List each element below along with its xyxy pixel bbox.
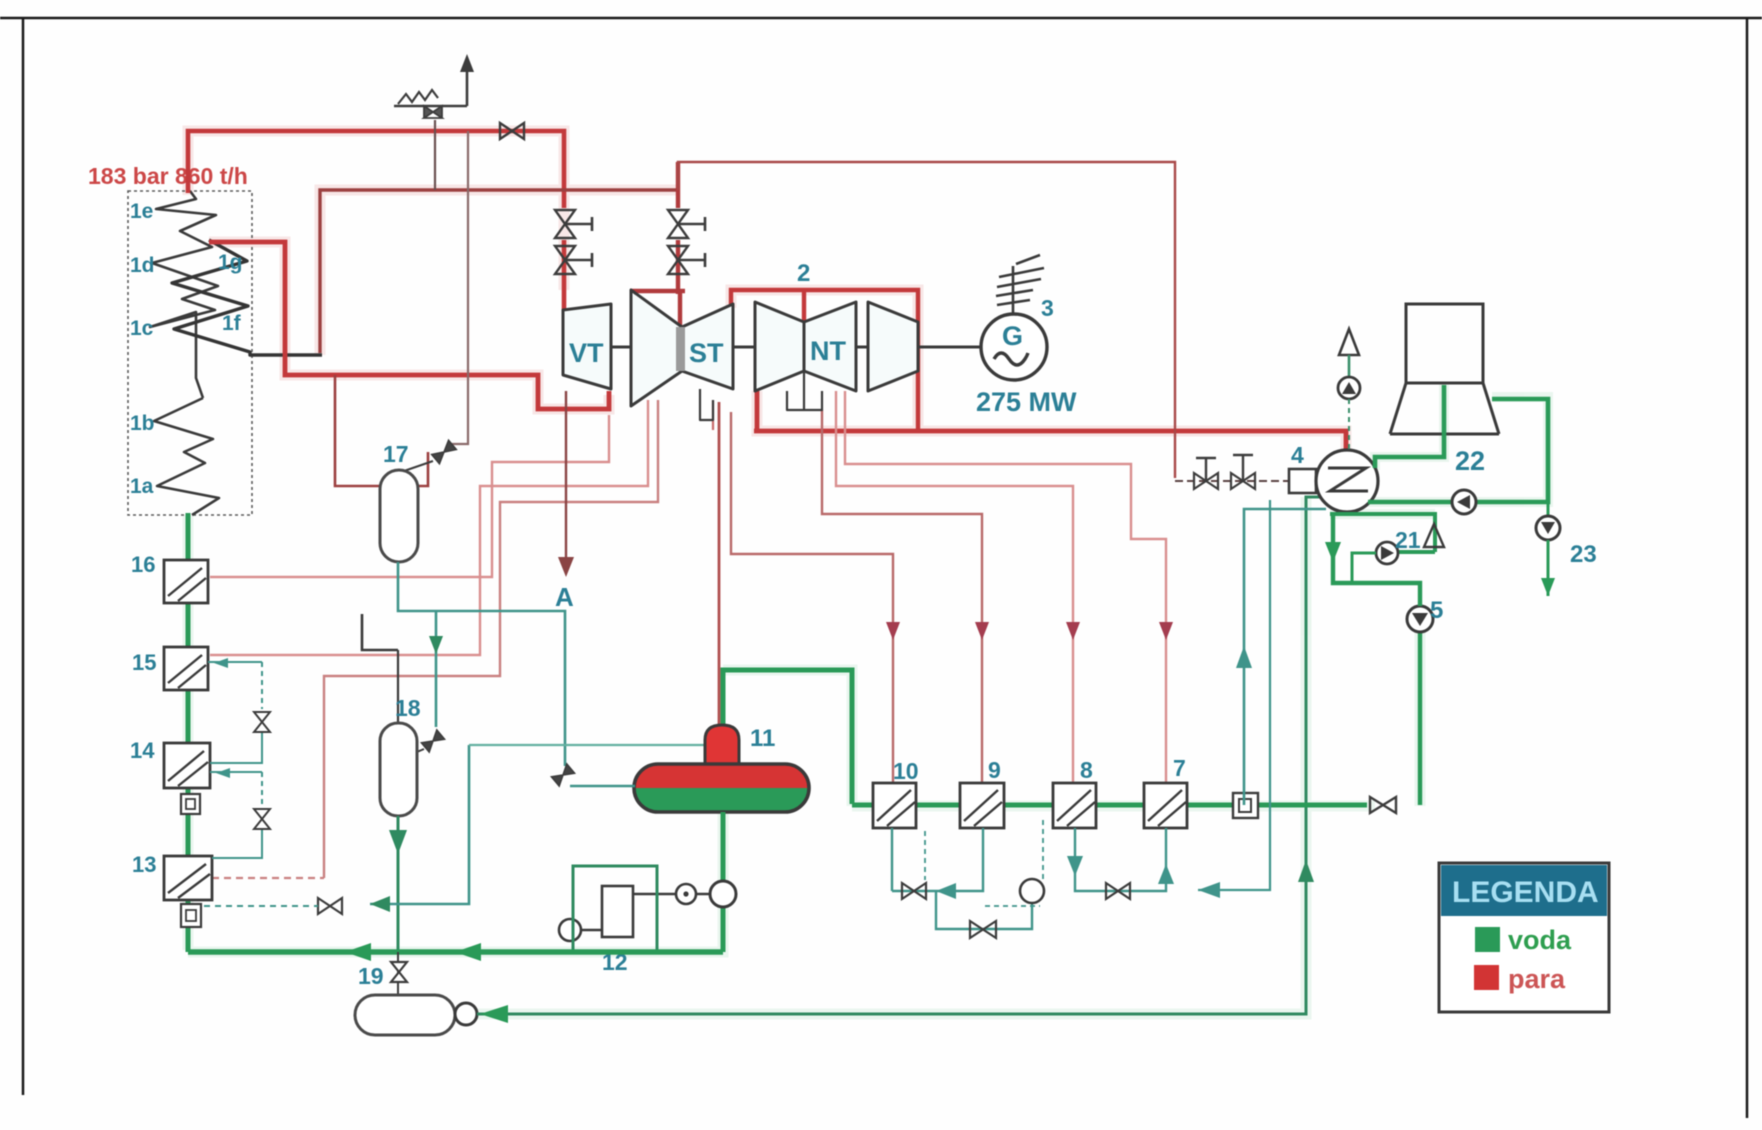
valve tank 18 inlet [421,730,444,752]
NT exhaust hood [787,371,822,410]
wire overflow to deaerator dome [469,744,705,746]
arrow relief vent [460,54,474,72]
relief header line [394,105,467,108]
svg-text:1e: 1e [130,200,153,223]
arrow makeup rise [1298,860,1314,882]
valve on overflow line [318,898,342,914]
bypass valve 2 [1231,455,1255,489]
heater 7 [1144,783,1187,828]
wire tank 17 drain to tank 18 [435,611,438,727]
svg-text:NT: NT [810,336,846,366]
wire pump to tank 12 [581,929,602,931]
wire feedwater riser [186,515,191,952]
pump heater drains [1020,879,1044,903]
pump circulating water [1452,490,1476,514]
wire extraction heater 13 dashed tail [212,877,324,879]
page frame top border [0,17,1762,20]
level gauge mark [362,614,398,650]
heater 8 [1053,783,1096,828]
svg-text:voda: voda [1508,925,1572,955]
arrow pump 23 blowdown [1541,578,1555,596]
wire pump 23 blowdown [1547,540,1550,596]
arrow extraction heater 7 [1159,622,1173,640]
tank 12 [602,886,633,937]
heater 16 [164,560,208,603]
wire feedwater bottom main [188,949,723,954]
deaerator dome [705,725,739,764]
arrow overflow left [370,896,390,912]
wire extraction to heater 8 [836,391,1073,783]
svg-text:19: 19 [358,963,384,989]
arrow extraction heater 9 [975,622,989,640]
wire condensate to deaerator [723,670,852,804]
arrow condenser outlet [1325,542,1341,562]
wire turbine bypass to condenser [678,162,1175,478]
heater 9 [960,783,1004,828]
pump 21 inner [1381,546,1394,560]
pump 21 [1376,542,1398,564]
valve drains pump loop [970,921,996,938]
wire condenser warm water to tower [1368,399,1548,502]
svg-text:1g: 1g [218,251,243,274]
fitting below heater 14 [181,794,200,814]
svg-text:21: 21 [1395,527,1421,553]
wire steam header to tank 17 drop [450,131,468,444]
svg-text:VT: VT [569,338,604,368]
page frame right border [1746,18,1749,1118]
wire main steam to VT [562,240,567,310]
svg-text:ST: ST [689,338,724,368]
wire cold reheat VT exhaust [209,242,609,409]
valve heater 10 drain [902,883,926,899]
wire gland steam to node A [565,391,567,562]
wire makeup water line [477,497,1330,1014]
wire valve to deaerator [570,785,635,788]
valve deaerator drain inlet [551,764,574,786]
shaft VT-ST [611,346,631,349]
wire drains pump loop [936,891,1032,929]
valve on main steam header [500,123,524,139]
wire tower cold water to condenser [1375,385,1444,468]
valve condensate line [1370,797,1396,813]
svg-text:10: 10 [893,758,919,784]
bypass valve 1 [1194,458,1218,489]
boiler coil 1a-1b zigzag [154,398,219,515]
bypass valve station line [1175,480,1289,482]
feedwater stub boiler inlet [186,513,191,562]
wire condensate riser [1244,509,1326,805]
arrow condenser drain return [1198,882,1220,898]
generator excitation mast [996,255,1044,315]
pump circulating inner [1457,495,1470,509]
svg-text:1d: 1d [130,254,155,277]
arrow heater 9 drain [936,883,956,899]
wire condensate recirc top [1332,512,1435,552]
deaerator tank 11 lower half [634,788,809,812]
wire reheat branch to tank 17 [335,375,428,486]
wire heater 8 drain [1075,828,1166,891]
wire vacuum pump to condenser [1348,399,1350,450]
arrow node A [558,557,574,577]
svg-text:18: 18 [395,695,421,721]
svg-text:7: 7 [1173,755,1186,781]
heater 14 [164,743,210,788]
wire condenser drain return [1198,500,1270,890]
condenser vent line [1348,355,1351,377]
orifice fitting [1233,793,1258,818]
generator G circle [981,314,1047,380]
arrow tank 18 drain [389,830,407,854]
relief valve springs [398,90,438,104]
condenser dump box [1289,469,1316,493]
svg-text:16: 16 [131,552,155,577]
generator sine wave [994,353,1028,365]
svg-text:1c: 1c [130,317,154,340]
relief vent pipe [466,70,469,106]
vacuum pump inner [1342,382,1356,394]
valve heater 14 drain [254,809,270,829]
halo main steam [188,131,1346,452]
svg-text:8: 8 [1080,757,1093,783]
ST stop valve lower [668,246,705,274]
svg-text:13: 13 [132,852,156,877]
legend box [1439,863,1609,1012]
VT stop valve lower [555,246,592,274]
wire recirculation loop [573,866,657,952]
signal dashes drains [925,820,1043,906]
wire main condensate line [852,803,1367,808]
wire tank 17 drain [398,562,565,766]
svg-text:183 bar 860 t/h: 183 bar 860 t/h [88,163,248,189]
wire NT exhaust to condenser [754,391,1346,452]
turbine ST left section [631,290,682,406]
valve tank 17 inlet [432,440,457,463]
arrow heater 14 drain [216,768,230,778]
arrow extraction heater 10 [886,622,900,640]
wire heater 10 drain [892,828,983,891]
heater 13 [164,856,212,900]
valve 19 [391,962,407,982]
svg-text:para: para [1508,964,1566,994]
svg-text:14: 14 [130,738,155,763]
wire extraction to heater 13 [324,400,658,878]
deaerator tank 11 outline [634,764,809,812]
halo green mains [188,497,1420,1014]
wire crossover ST to NT [731,290,918,429]
VT stop valve upper [555,210,592,238]
valve heater 15 drain [254,712,270,732]
ST stop valve upper [668,210,705,238]
shaft ST-NT [733,346,755,349]
fitting below heater 13 [181,904,201,927]
condenser coil symbol [1328,468,1368,491]
pump 5 [1407,606,1433,632]
svg-text:3: 3 [1041,295,1054,321]
wire pump link [633,893,710,895]
page frame left border [22,18,25,1095]
arrow extraction heater 8 [1066,622,1080,640]
valve heater 8 drain [1106,883,1130,899]
pump feed booster dot [683,891,688,896]
wire ST exhaust stub [712,400,714,430]
legend header [1441,865,1607,916]
boiler casing box [128,191,252,515]
svg-text:1b: 1b [130,412,155,435]
svg-text:275 MW: 275 MW [976,387,1077,417]
arrow feedwater left 2 [345,943,371,961]
svg-text:A: A [555,582,574,612]
arrow tank 18 inlet [429,636,443,654]
ST waist shade [676,327,685,371]
wire relief to steam line [434,120,436,190]
wire heater 14 drain loop [210,772,262,858]
wire pump 5 discharge [1418,632,1422,805]
vacuum pump [1338,377,1360,399]
pump 5 inner [1412,613,1428,626]
svg-text:23: 23 [1570,541,1597,568]
wire hot reheat riser [320,190,676,353]
wire gauge to tank 18 [397,650,399,723]
svg-text:11: 11 [750,725,775,752]
svg-text:LEGENDA: LEGENDA [1452,876,1599,909]
pump 23 [1536,516,1560,540]
turbine VT [563,304,611,389]
wire pump 23 suction [1547,502,1550,517]
arrow heater 8 drain down [1067,856,1083,876]
ST exhaust hood [700,389,713,420]
heater 10 [873,783,916,828]
legend voda swatch [1475,927,1500,952]
pump tank 19 [455,1003,477,1025]
svg-text:2: 2 [797,260,810,287]
arrow heater 15 drain [214,658,228,668]
wire extraction to heater 10 [731,412,893,783]
wire tank 18 drain [397,816,400,952]
wire pump 5 suction [1333,515,1420,606]
relief valve body [424,106,442,118]
wire heater 15 drain loop [208,662,262,763]
shaft NT-end [856,346,868,349]
halo cooling loop [1330,383,1548,514]
pump tank 12 [559,919,581,941]
turbine NT left section [755,302,804,391]
arrow condensate riser [1236,646,1252,668]
svg-text:17: 17 [383,441,409,467]
cooling tower 22 [1390,304,1499,434]
condenser 4 circle [1316,450,1378,512]
turbine LP end section [868,302,918,391]
svg-text:9: 9 [988,757,1001,783]
boiler coil 1c-1e zigzag [150,191,218,398]
wire extraction to heater 9 [822,410,982,783]
wire pump 21 tail [1352,553,1376,583]
svg-text:15: 15 [132,650,156,675]
turbine NT right section [804,302,856,391]
wire deaerator downcomer [721,812,726,952]
wire to tank 19 [397,952,399,995]
condenser vent triangle [1339,329,1359,355]
pump 23 inner [1541,522,1555,534]
heater 15 [164,647,208,690]
vent triangle 21 [1424,524,1444,547]
svg-text:22: 22 [1455,446,1485,476]
arrow feedwater left 1 [455,943,481,961]
tank 18 [380,723,417,816]
tank 17 [380,470,418,562]
pump main feed [710,881,736,907]
wire extraction to heater 16 [210,415,609,577]
wire hot reheat to ST valves [631,162,685,330]
deaerator tank 11 upper half [634,764,809,788]
wire overflow dashed tail [204,905,318,907]
wire deaerator overflow down [370,745,469,904]
boiler reheater coil 1f-1g zigzag [172,240,322,355]
svg-text:1a: 1a [130,475,154,498]
pump feed booster [676,884,696,904]
svg-text:1f: 1f [222,312,242,335]
svg-text:5: 5 [1430,597,1443,624]
wire extraction to heater 7 [845,391,1166,783]
turbine ST right section [682,304,733,389]
shaft to generator [918,346,981,349]
arrow makeup into tank 19 [480,1005,508,1023]
tank 19 [355,995,455,1035]
wire extraction to heater 15 [210,400,648,655]
legend para swatch [1474,965,1499,990]
svg-text:4: 4 [1291,442,1304,468]
arrow heater 7 drain up [1158,864,1174,884]
wire extraction to deaerator [718,402,721,724]
wire main steam line [188,131,564,208]
svg-text:G: G [1002,321,1023,351]
